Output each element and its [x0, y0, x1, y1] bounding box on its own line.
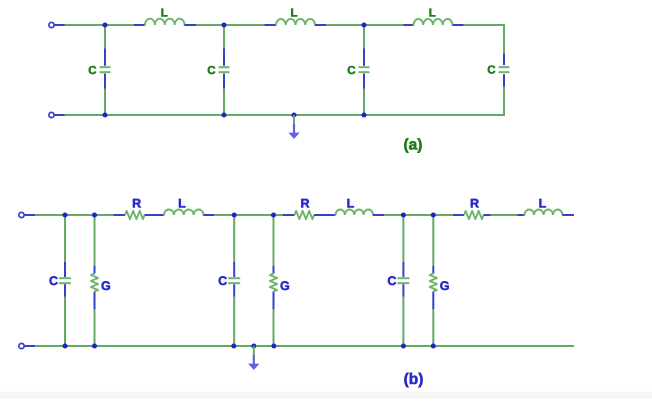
svg-text:G: G: [440, 279, 450, 293]
svg-text:L: L: [347, 196, 355, 210]
svg-text:L: L: [290, 8, 297, 20]
svg-text:R: R: [470, 196, 479, 210]
svg-text:(a): (a): [404, 137, 423, 154]
svg-text:R: R: [300, 196, 309, 210]
svg-text:(b): (b): [404, 371, 424, 388]
svg-text:L: L: [161, 8, 168, 20]
svg-text:C: C: [207, 65, 215, 77]
svg-text:C: C: [387, 274, 396, 288]
svg-text:C: C: [218, 274, 227, 288]
svg-text:L: L: [539, 196, 547, 210]
svg-text:G: G: [280, 279, 290, 293]
svg-text:R: R: [132, 196, 141, 210]
svg-text:C: C: [88, 65, 96, 77]
svg-text:L: L: [429, 8, 436, 20]
svg-text:C: C: [347, 65, 355, 77]
svg-text:C: C: [49, 274, 58, 288]
svg-text:L: L: [178, 196, 186, 210]
svg-text:G: G: [101, 279, 111, 293]
svg-text:C: C: [487, 64, 495, 76]
